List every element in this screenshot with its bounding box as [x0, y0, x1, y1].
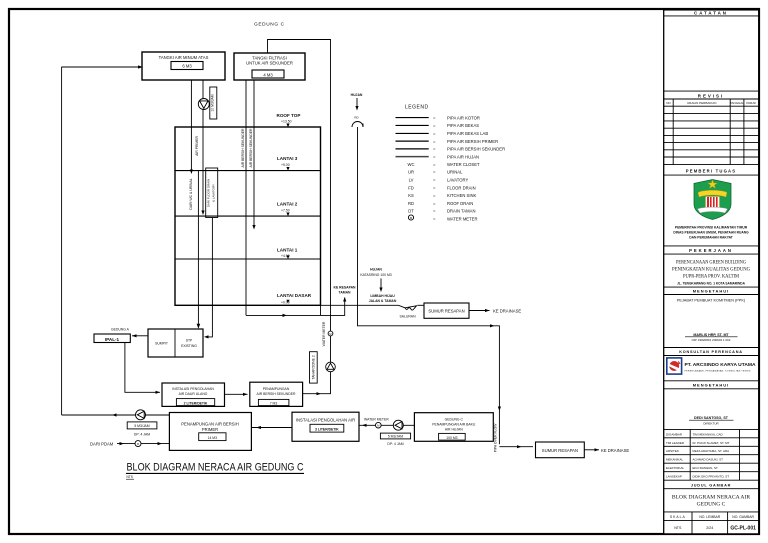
svg-text:PT. ARCSINDO KARYA UTAMA: PT. ARCSINDO KARYA UTAMA	[685, 362, 756, 367]
svg-text:LAVATORY: LAVATORY	[447, 178, 468, 183]
svg-text:PIPA AIR BERSIH SEKUNDER: PIPA AIR BERSIH SEKUNDER	[447, 147, 505, 152]
svg-text:PIPA AIR BERSIH PRIMER: PIPA AIR BERSIH PRIMER	[447, 139, 498, 144]
svg-text:DARI WC & URINAL: DARI WC & URINAL	[189, 178, 193, 209]
svg-text:TANGGAL: TANGGAL	[730, 101, 744, 105]
svg-text:UR: UR	[408, 170, 414, 175]
svg-text:JL. TENGKAWANG NO. 1 KOTA SAMA: JL. TENGKAWANG NO. 1 KOTA SAMARINDA	[677, 282, 746, 286]
svg-text:TIM LEADER: TIM LEADER	[666, 441, 685, 445]
svg-text:STP: STP	[186, 339, 193, 343]
svg-text:WATER METER: WATER METER	[322, 321, 326, 346]
svg-text:INSTALASI PENGOLAHAN: INSTALASI PENGOLAHAN	[172, 387, 214, 391]
svg-text:HUJAN: HUJAN	[370, 268, 382, 272]
svg-text:WATER METER: WATER METER	[447, 216, 477, 221]
svg-text:WATER METER: WATER METER	[364, 417, 389, 421]
svg-text:TANGKI AIR MINUM ATAS: TANGKI AIR MINUM ATAS	[159, 55, 209, 60]
svg-text:KATASRING 100 M3: KATASRING 100 M3	[360, 273, 391, 277]
svg-text:NO. LEMBAR: NO. LEMBAR	[699, 515, 720, 519]
svg-text:M: M	[377, 424, 379, 428]
svg-text:+9.00: +9.00	[281, 163, 290, 167]
svg-text:+0.00: +0.00	[281, 301, 290, 305]
svg-text:PERENCANAAN, PENGAWASAN, KONSU: PERENCANAAN, PENGAWASAN, KONSULTAN TEKNI…	[685, 370, 752, 373]
svg-text:14 M3: 14 M3	[208, 436, 218, 440]
svg-text:GEDUNG C: GEDUNG C	[254, 22, 285, 28]
svg-text:5 M3/JAM: 5 M3/JAM	[388, 435, 403, 439]
svg-text:EKO IRIAWAN, ST: EKO IRIAWAN, ST	[693, 466, 718, 470]
svg-text:MENGETAHUI: MENGETAHUI	[693, 289, 730, 294]
svg-text:LANSEKAP: LANSEKAP	[666, 475, 682, 479]
svg-text:ROOF TOP: ROOF TOP	[277, 113, 301, 118]
svg-text:2/24: 2/24	[706, 526, 713, 530]
svg-text:KE DRAINASE: KE DRAINASE	[601, 448, 629, 453]
svg-text:GC-PL-001: GC-PL-001	[730, 526, 756, 532]
svg-text:+13.50: +13.50	[281, 120, 292, 124]
svg-text:TIM MEKANIKAL CAD: TIM MEKANIKAL CAD	[693, 432, 724, 436]
svg-text:5 M3/JAM: 5 M3/JAM	[134, 424, 149, 428]
svg-text:DP: 4 JAM: DP: 4 JAM	[387, 442, 403, 446]
svg-text:KE RESAPAN: KE RESAPAN	[334, 286, 357, 290]
svg-text:PENAMPUNGAN AIR BERSIH: PENAMPUNGAN AIR BERSIH	[181, 422, 238, 427]
svg-text:JALAN & TAMAN: JALAN & TAMAN	[369, 299, 397, 303]
svg-text:LANTAI DASAR: LANTAI DASAR	[277, 293, 312, 298]
svg-text:10 M3/JAM: 10 M3/JAM	[210, 94, 214, 111]
svg-text:7 M3: 7 M3	[270, 401, 278, 405]
svg-text:SALURAN: SALURAN	[400, 314, 417, 318]
svg-text:PENAMPUNGAN AIR BAKU: PENAMPUNGAN AIR BAKU	[432, 423, 476, 427]
svg-text:SKALA: SKALA	[670, 515, 686, 519]
svg-text:URAIAN PERBAIKAN: URAIAN PERBAIKAN	[687, 101, 716, 105]
svg-text:AIR BERSIH SEKUNDER: AIR BERSIH SEKUNDER	[241, 128, 245, 168]
svg-text:4 M3: 4 M3	[263, 73, 273, 78]
svg-text:AIR DAUR ULANG: AIR DAUR ULANG	[179, 392, 208, 396]
svg-text:DIREKTUR: DIREKTUR	[703, 422, 719, 426]
svg-text:+4.00: +4.00	[281, 254, 290, 258]
svg-text:PEKERJAAN: PEKERJAAN	[689, 248, 733, 253]
svg-text:SUMUR RESAPAN: SUMUR RESAPAN	[428, 309, 464, 314]
svg-text:MENGETAHUI: MENGETAHUI	[693, 383, 730, 388]
svg-text:ARSITEK: ARSITEK	[666, 449, 679, 453]
svg-text:100 M3: 100 M3	[446, 436, 457, 440]
svg-text:DIDIK EKO PRIYANTO, ST: DIDIK EKO PRIYANTO, ST	[693, 475, 730, 479]
svg-text:AIR PRIMER: AIR PRIMER	[195, 136, 199, 156]
svg-text:GEDUNG C: GEDUNG C	[445, 418, 464, 422]
svg-text:JUDUL GAMBAR: JUDUL GAMBAR	[691, 483, 731, 487]
svg-text:GEDUNG A: GEDUNG A	[111, 328, 130, 332]
svg-text:PRIMER: PRIMER	[202, 427, 218, 432]
svg-text:AIR HUJAN: AIR HUJAN	[445, 428, 463, 432]
svg-text:SUMPIT: SUMPIT	[155, 342, 168, 346]
svg-text:EXISTING: EXISTING	[181, 344, 197, 348]
svg-text:KE DRAINASE: KE DRAINASE	[493, 308, 521, 313]
svg-text:RD: RD	[408, 201, 414, 206]
svg-text:TAMAN: TAMAN	[339, 291, 352, 295]
svg-text:IR. PUDJI SLAMET, ST. MT: IR. PUDJI SLAMET, ST. MT	[693, 441, 730, 445]
svg-text:WC: WC	[408, 162, 415, 167]
svg-text:REVISI: REVISI	[698, 93, 724, 98]
svg-text:KITCHEN SINK: KITCHEN SINK	[447, 193, 477, 198]
svg-text:SUMUR RESAPAN: SUMUR RESAPAN	[542, 448, 578, 453]
svg-text:ROOF DRAIN: ROOF DRAIN	[447, 201, 473, 206]
svg-text:DRAIN TAMAN: DRAIN TAMAN	[447, 209, 475, 214]
svg-text:DT: DT	[408, 209, 414, 214]
svg-text:PERENCANAAN GREEN BUILDING: PERENCANAAN GREEN BUILDING	[676, 260, 746, 266]
svg-text:DAN PERUMAHAN RAKYAT: DAN PERUMAHAN RAKYAT	[689, 236, 733, 240]
svg-text:DIGAMBAR: DIGAMBAR	[666, 432, 683, 436]
svg-text:REZA ADHITAMA, ST. ARA: REZA ADHITAMA, ST. ARA	[693, 449, 730, 453]
svg-text:AIR BERSIH SEKUNDER: AIR BERSIH SEKUNDER	[256, 392, 296, 396]
svg-text:ACHMAD DASUKI, ST: ACHMAD DASUKI, ST	[693, 458, 724, 462]
svg-text:GEDUNG C: GEDUNG C	[697, 502, 726, 508]
svg-text:TAHAP/ZONE 2: TAHAP/ZONE 2	[311, 355, 315, 379]
svg-text:URINAL: URINAL	[447, 170, 463, 175]
svg-text:PEMERINTAH PROVINSI KALIMANTAN: PEMERINTAH PROVINSI KALIMANTAN TIMUR	[675, 226, 748, 230]
svg-text:BLOK DIAGRAM NERACA AIR: BLOK DIAGRAM NERACA AIR	[672, 495, 750, 501]
svg-text:PIPA AIR KOTOR: PIPA AIR KOTOR	[447, 115, 480, 120]
svg-text:DARI PDAM: DARI PDAM	[90, 441, 114, 446]
svg-text:2 LITER/DETIK: 2 LITER/DETIK	[184, 401, 208, 405]
svg-text:DP: 4 JAM: DP: 4 JAM	[134, 433, 150, 437]
svg-text:DINAS PEKERJAAN UMUM, PENATAAN: DINAS PEKERJAAN UMUM, PENATAAN RUANG	[673, 231, 749, 235]
svg-text:MEKANIKAL: MEKANIKAL	[666, 458, 684, 462]
svg-text:HUJAN: HUJAN	[351, 93, 363, 97]
svg-text:PARAF: PARAF	[746, 101, 756, 105]
svg-text:PIPA OVER FLOW: PIPA OVER FLOW	[494, 423, 498, 452]
svg-text:PENAMPUNGAN: PENAMPUNGAN	[263, 387, 290, 391]
svg-text:FD: FD	[408, 185, 414, 190]
svg-text:LIMBAH HIJAU: LIMBAH HIJAU	[370, 294, 395, 298]
svg-text:NO. GAMBAR: NO. GAMBAR	[732, 515, 754, 519]
svg-text:PIPA AIR BEKAS: PIPA AIR BEKAS	[447, 123, 479, 128]
svg-text:PUPR-PERA PROV. KALTIM: PUPR-PERA PROV. KALTIM	[683, 274, 739, 280]
svg-text:NIP. 19820816 200903 1 002: NIP. 19820816 200903 1 002	[692, 338, 731, 342]
svg-text:LEGEND: LEGEND	[405, 105, 429, 111]
svg-text:KONSULTAN PERENCANA: KONSULTAN PERENCANA	[679, 350, 743, 354]
svg-text:PIPA AIR BEKAS LAB: PIPA AIR BEKAS LAB	[447, 131, 488, 136]
svg-text:ELEKTRIKAL: ELEKTRIKAL	[666, 466, 685, 470]
svg-text:3 LITER/DETIK: 3 LITER/DETIK	[315, 427, 339, 431]
svg-text:NTS: NTS	[127, 475, 133, 479]
svg-text:KS: KS	[408, 193, 414, 198]
svg-text:PEJABAT PEMBUAT KOMITMEN (PPK): PEJABAT PEMBUAT KOMITMEN (PPK)	[677, 299, 746, 303]
svg-text:LANTAI 2: LANTAI 2	[277, 202, 298, 207]
svg-text:MARLIS HRP, ST. MT: MARLIS HRP, ST. MT	[693, 333, 729, 337]
svg-text:INSTALASI PENGOLAHAN AIR: INSTALASI PENGOLAHAN AIR	[296, 418, 355, 423]
svg-text:PIPA AIR HUJAN: PIPA AIR HUJAN	[447, 154, 479, 159]
svg-text:PENINGKATAN KUALITAS GEDUNG: PENINGKATAN KUALITAS GEDUNG	[672, 267, 750, 273]
svg-text:LANTAI 1: LANTAI 1	[277, 247, 298, 252]
svg-text:& LAVATORY: & LAVATORY	[212, 184, 216, 202]
svg-text:FLOOR DRAIN: FLOOR DRAIN	[447, 185, 476, 190]
svg-text:+7.50: +7.50	[281, 209, 290, 213]
svg-text:LANTAI 3: LANTAI 3	[277, 156, 298, 161]
svg-text:M: M	[329, 332, 331, 336]
svg-text:LV: LV	[409, 178, 414, 183]
svg-text:AIR BERSIH SEKUNDER: AIR BERSIH SEKUNDER	[249, 128, 253, 168]
svg-text:CATATAN: CATATAN	[694, 11, 728, 16]
svg-text:NTS: NTS	[674, 526, 682, 530]
svg-text:WATER CLOSET: WATER CLOSET	[447, 162, 480, 167]
svg-text:M: M	[137, 442, 139, 446]
svg-text:NO: NO	[666, 101, 671, 105]
svg-text:PEMBERI TUGAS: PEMBERI TUGAS	[686, 169, 737, 174]
svg-text:DARI FLOOR DRAIN: DARI FLOOR DRAIN	[207, 179, 211, 208]
svg-text:BLOK DIAGRAM NERACA AIR GEDUNG: BLOK DIAGRAM NERACA AIR GEDUNG C	[127, 461, 304, 473]
svg-text:6 M3: 6 M3	[182, 64, 192, 69]
svg-text:DEDI SANTOSO, ST: DEDI SANTOSO, ST	[694, 416, 729, 420]
svg-text:IPAL-1: IPAL-1	[105, 337, 120, 342]
svg-text:UNTUK AIR SEKUNDER: UNTUK AIR SEKUNDER	[246, 61, 293, 66]
